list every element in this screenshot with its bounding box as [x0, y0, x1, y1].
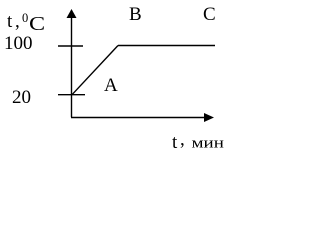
point label C	[203, 5, 216, 24]
value label 20	[12, 88, 31, 107]
x-axis (time axis)	[71, 117, 211, 119]
y-axis arrowhead	[67, 9, 77, 18]
axis label t (temperature)	[7, 12, 12, 31]
tick at 100	[58, 45, 83, 47]
point label B	[129, 5, 142, 24]
x-axis arrowhead	[204, 113, 214, 122]
plateau segment B-C at 100	[118, 45, 215, 47]
axis label C (degrees)	[29, 14, 45, 34]
y-axis (temperature axis)	[71, 12, 73, 117]
axes and curve svg	[0, 0, 225, 156]
point label A	[104, 76, 118, 95]
axis label comma	[15, 12, 20, 31]
heating curve segment A-B (diagonal rise)	[72, 46, 118, 95]
axis label t (time)	[172, 133, 177, 152]
tick at 20	[58, 94, 85, 96]
axis label superscript 0	[22, 12, 28, 25]
time label comma	[180, 130, 185, 149]
time label мин (minutes)	[192, 136, 224, 151]
value label 100	[4, 34, 33, 53]
